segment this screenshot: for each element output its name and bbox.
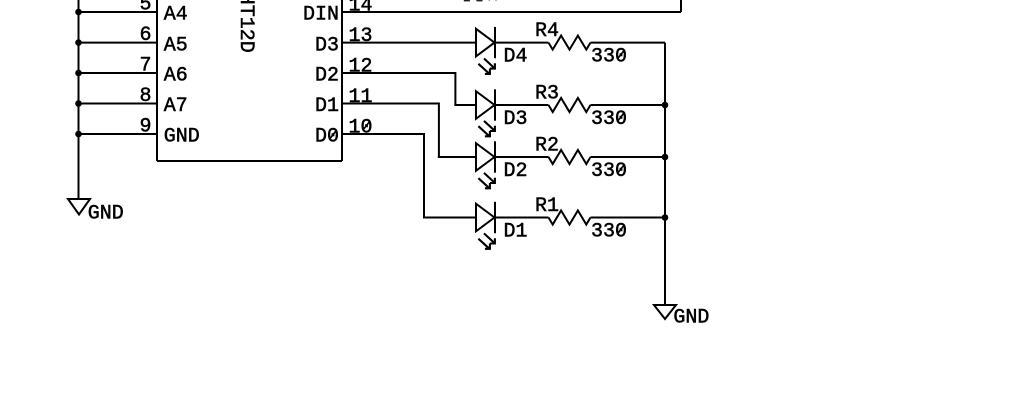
svg-text:13: 13 <box>349 25 373 48</box>
wire: DIN vertical up off-page <box>680 0 682 12</box>
wire: LED D4 to resistor R4 <box>495 42 549 44</box>
slash of zero in 10 <box>363 121 370 130</box>
wire: pin 6 to bus <box>79 42 158 44</box>
LED emission arrow 1 <box>484 59 495 69</box>
svg-text:D0: D0 <box>315 126 339 149</box>
svg-text:330: 330 <box>591 108 627 131</box>
LED emission arrow 2 <box>478 239 490 249</box>
svg-text:R4: R4 <box>535 20 559 43</box>
svg-text:R1: R1 <box>535 195 559 218</box>
wire: LED D1 to resistor R1 <box>495 217 549 219</box>
ground GND left symbol <box>68 199 90 215</box>
wire: vertical drop to LED D1 row <box>423 133 425 219</box>
svg-text:D4: D4 <box>504 45 528 68</box>
LED triangle <box>476 204 495 232</box>
resistor R3 <box>549 98 591 112</box>
wire: to LED D2 <box>438 156 476 158</box>
svg-text:D2: D2 <box>315 65 339 88</box>
svg-text:330: 330 <box>591 160 627 183</box>
resistor R1 <box>549 211 591 225</box>
svg-text:12: 12 <box>349 56 373 79</box>
svg-text:330: 330 <box>591 220 627 243</box>
svg-text:A6: A6 <box>164 65 188 88</box>
svg-text:DIN: DIN <box>303 4 339 27</box>
svg-text:HT12D: HT12D <box>234 0 257 53</box>
wire: pin 8 to bus <box>79 103 158 105</box>
LED cathode bar <box>494 27 496 58</box>
LED triangle <box>476 143 495 171</box>
svg-text:8: 8 <box>140 85 152 108</box>
svg-text:9: 9 <box>140 116 152 139</box>
IC U1 HT12D right edge <box>341 0 343 161</box>
LED triangle <box>476 29 495 57</box>
wire: to LED D3 <box>454 104 476 106</box>
junction dot pin 5 row <box>75 9 82 16</box>
wire: vertical drop to LED D2 row <box>438 103 440 159</box>
LED triangle <box>476 91 495 119</box>
wire: resistor R4 to right bus <box>591 42 666 44</box>
wire: LED D2 to resistor R2 <box>495 156 549 158</box>
LED emission arrow 1 <box>484 121 495 131</box>
LED emission arrow 2 <box>478 178 490 188</box>
junction dot pin 8 row <box>75 100 82 107</box>
svg-text:A4: A4 <box>164 4 188 27</box>
svg-text:D2: D2 <box>504 160 528 183</box>
svg-text:D3: D3 <box>504 108 528 131</box>
LED cathode bar <box>494 89 496 120</box>
wire: pin 7 to bus <box>79 72 158 74</box>
IC U1 HT12D bottom edge <box>157 160 342 162</box>
wire: pin 10 horizontal <box>342 133 424 135</box>
svg-text:A5: A5 <box>164 34 188 57</box>
svg-text:5: 5 <box>140 0 152 17</box>
junction dot pin 6 row <box>75 39 82 46</box>
resistor R4 <box>549 36 591 50</box>
wire: LED D3 to resistor R3 <box>495 104 549 106</box>
svg-text:A7: A7 <box>164 95 188 118</box>
ground GND right symbol <box>654 305 676 319</box>
LED emission arrow 2 <box>478 126 490 136</box>
wire: pin 5 to bus <box>79 11 158 13</box>
IC U1 HT12D left edge <box>156 0 158 161</box>
junction dot row D1 <box>662 214 669 221</box>
wire: pin 12 horizontal <box>342 72 455 74</box>
svg-text:R2: R2 <box>535 135 559 158</box>
svg-text:14: 14 <box>349 0 373 18</box>
svg-text:D3: D3 <box>315 34 339 57</box>
svg-text:10: 10 <box>349 117 373 140</box>
wire: left address bus vertical <box>78 0 80 199</box>
LED emission arrow 1 <box>484 173 495 183</box>
svg-text:D1: D1 <box>315 95 339 118</box>
svg-text:R3: R3 <box>535 83 559 106</box>
wire: pin 11 horizontal <box>342 103 439 105</box>
wire: resistor R3 to right bus <box>591 104 666 106</box>
svg-text:6: 6 <box>140 24 152 47</box>
wire: right bus vertical <box>664 43 666 305</box>
LED cathode bar <box>494 141 496 172</box>
LED emission arrow 2 <box>478 64 490 74</box>
wire: DIN pin 14 horizontal <box>342 11 681 13</box>
svg-text:D1: D1 <box>504 220 528 243</box>
svg-text:GND: GND <box>164 126 200 149</box>
cut-off text remnants at top edge <box>464 0 470 1</box>
svg-text:7: 7 <box>140 55 152 78</box>
svg-text:GND: GND <box>88 202 124 225</box>
junction dot pin 7 row <box>75 70 82 77</box>
resistor R2 <box>549 150 591 164</box>
svg-text:GND: GND <box>673 307 709 330</box>
wire: resistor R1 to right bus <box>591 217 666 219</box>
svg-text:11: 11 <box>349 86 373 109</box>
LED emission arrow 1 <box>484 233 495 243</box>
svg-text:330: 330 <box>591 45 627 68</box>
junction dot pin 9 row <box>75 131 82 138</box>
wire: resistor R2 to right bus <box>591 156 666 158</box>
LED cathode bar <box>494 202 496 233</box>
wire: to LED D1 <box>423 217 476 219</box>
slash of zero in D0 <box>330 130 337 139</box>
wire: pin 9 to bus <box>79 133 158 135</box>
wire: pin 13 to LED D4 <box>342 42 476 44</box>
junction dot row D3 <box>662 102 669 109</box>
junction dot row D2 <box>662 154 669 161</box>
wire: vertical drop to LED D3 row <box>454 72 456 106</box>
